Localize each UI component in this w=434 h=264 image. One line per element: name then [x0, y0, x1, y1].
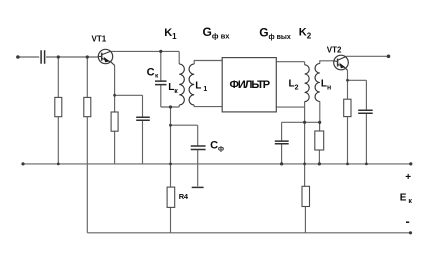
node cap at bus [280, 162, 283, 165]
svg-text:R4: R4 [179, 192, 189, 201]
node VT2 emitter at bus [346, 163, 349, 166]
label minus [406, 221, 409, 223]
wire L2 leg down through bus [304, 107, 307, 233]
wire L2 bottom to filter [276, 102, 304, 108]
transistor VT1 [98, 49, 114, 65]
wire input to VT1 base [46, 56, 99, 58]
wire Ln leg resistor [318, 122, 320, 164]
node tank bottom [169, 105, 172, 108]
wire tank bottom [161, 106, 179, 108]
wire tank to R4 to bottom bus [170, 107, 172, 233]
wire resistor R1 branch [57, 57, 59, 164]
svg-text:ФИЛЬТР: ФИЛЬТР [230, 79, 270, 91]
resistor R1 (input divider upper) [55, 97, 62, 116]
wire filter to L2 top [276, 62, 304, 65]
wire emitter bypass branch [115, 95, 143, 164]
wire L1 top to filter [194, 61, 222, 65]
filter box [222, 58, 276, 112]
capacitor Ck plates [155, 81, 167, 85]
capacitor emitter bypass 2 plates [358, 110, 373, 113]
resistor Ln leg [315, 131, 324, 150]
node VT2 emitter junction [346, 79, 349, 82]
wire to C-phi [171, 125, 198, 186]
node Ln leg node [318, 121, 321, 124]
node VT2 bypass at bus [365, 163, 368, 166]
node bus left end [21, 162, 24, 165]
node divider tap 2 [86, 55, 89, 58]
node bottom bus right end [409, 231, 412, 234]
node bus right end [409, 162, 412, 165]
node Ln resistor at bus [318, 162, 321, 165]
capacitor emitter bypass 1 plates [136, 117, 150, 120]
svg-text:VT2: VT2 [327, 46, 342, 55]
wire VT2 emitter branch [347, 70, 349, 164]
wire cap branch right of filter [281, 122, 283, 164]
capacitor C-in (series input) [41, 50, 45, 64]
wire main bus [23, 163, 411, 165]
wire Ln top to VT2 base [320, 61, 334, 64]
node emitter junction 1 [113, 94, 116, 97]
wire VT1 collector to tank top [110, 50, 179, 52]
svg-text:VT1: VT1 [92, 35, 107, 44]
node divider tap 1 [57, 55, 60, 58]
wire Ck branch [160, 51, 162, 107]
transistor VT2 emitter arrow [339, 63, 345, 68]
node R4 bus crossing [169, 163, 172, 166]
wire node below K2 [282, 121, 320, 123]
capacitor C-phi end bar [192, 186, 204, 188]
inductor Lk coil [179, 64, 184, 105]
resistor VT1 emitter [111, 112, 118, 131]
wire bottom bus [87, 232, 410, 234]
wire input left segment [18, 56, 39, 58]
wire Ln bottom stub [319, 102, 321, 123]
node R1 at bus [57, 163, 60, 166]
inductor L1 coil [189, 64, 194, 105]
resistor VT2 emitter [344, 99, 351, 116]
node L2 leg node [303, 121, 306, 124]
transistor VT2 [334, 55, 349, 70]
transistor VT1 emitter arrow [104, 57, 110, 63]
node output terminal [387, 55, 391, 59]
node collector-tank [159, 50, 162, 53]
capacitor C-phi plates [191, 146, 206, 150]
wire VT2 collector out [346, 55, 389, 57]
wire Lk stubs [178, 51, 180, 107]
wire L1 bottom to filter [194, 105, 222, 107]
node L2 leg at bus [303, 163, 306, 166]
svg-text:+: + [405, 172, 411, 183]
inductor Ln coil [315, 64, 320, 102]
wire VT2 bypass branch [348, 80, 367, 164]
wire resistor R2 branch through to bottom bus [86, 57, 88, 233]
resistor R2 (input divider lower) [84, 97, 91, 116]
resistor R4 [167, 187, 175, 207]
node C-phi tap [169, 124, 172, 127]
node input terminal [16, 55, 20, 59]
inductor L2 coil [305, 65, 310, 102]
resistor lower right (L2 leg) [302, 186, 310, 206]
capacitor right of filter plates [275, 141, 289, 144]
wire VT1 emitter branch [114, 65, 116, 164]
